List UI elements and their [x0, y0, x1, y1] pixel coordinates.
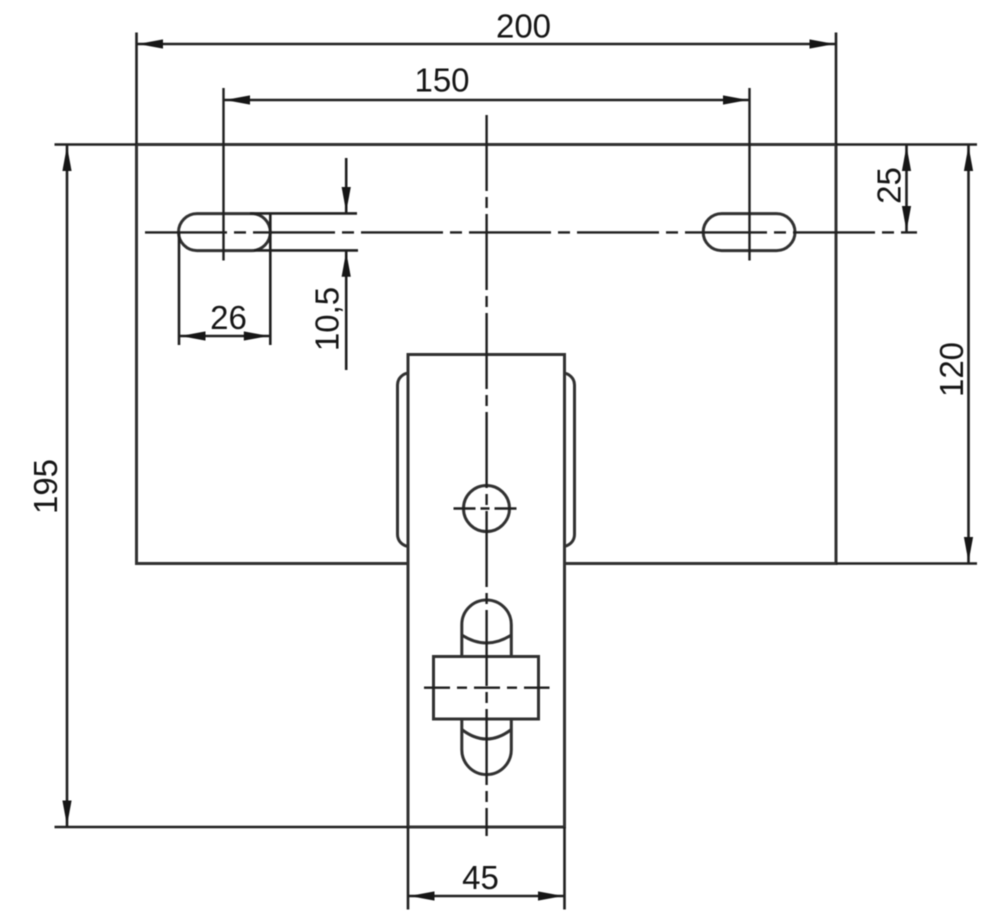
vertical centerline of part	[485, 115, 487, 836]
tube edge arc upper	[462, 635, 512, 643]
svg-text:45: 45	[462, 859, 499, 896]
dim 10,5 leader upper	[345, 158, 348, 213]
right side tab (folded flange behind bracket)	[541, 373, 575, 547]
dim 26 extension right	[269, 214, 272, 346]
dim 10,5 extension lower	[254, 249, 358, 252]
dim 45 extension right	[563, 827, 566, 910]
dim 150 line	[224, 99, 750, 102]
base plate outline	[137, 145, 837, 564]
dim 45 extension left	[407, 827, 410, 910]
dim 195 extension bottom	[55, 826, 409, 829]
vertical bracket body	[408, 355, 565, 828]
center circular hole	[464, 486, 510, 532]
dim 26 line	[179, 335, 270, 338]
dim 195 line	[66, 145, 69, 828]
dim 120 extension top	[836, 143, 977, 146]
dim 26 extension left	[178, 232, 181, 345]
dim 200 line	[137, 43, 837, 46]
dim 10,5 leader lower	[345, 250, 348, 370]
left side tab (folded flange behind bracket)	[398, 373, 432, 547]
dim 25 line	[905, 145, 908, 233]
dim 120 line	[967, 145, 970, 564]
left slot vertical crosshair / 150 extension	[222, 88, 224, 261]
svg-text:25: 25	[871, 167, 908, 204]
horizontal centerline through slotted holes	[145, 231, 917, 233]
dim 45 line	[408, 895, 565, 898]
right slotted hole	[703, 214, 795, 251]
svg-text:150: 150	[414, 62, 469, 99]
svg-text:26: 26	[210, 299, 247, 336]
nut block centerline horizontal	[424, 687, 550, 689]
dim 120 extension bottom	[836, 562, 977, 565]
right slot vertical crosshair / 150 extension	[748, 88, 750, 261]
svg-text:200: 200	[496, 8, 551, 45]
svg-text:120: 120	[933, 342, 970, 397]
tube edge arc lower	[462, 730, 512, 740]
dim 200 extension right	[835, 33, 838, 145]
dim 10,5 extension upper	[250, 212, 357, 215]
dim 200 extension left	[135, 33, 138, 145]
left slotted hole	[179, 214, 271, 251]
vertical slot in bracket	[462, 600, 512, 775]
square nut block over slot	[434, 657, 539, 720]
dim 195 extension top	[55, 143, 137, 146]
svg-text:195: 195	[27, 459, 64, 514]
circle crosshair horizontal	[454, 507, 520, 509]
svg-text:10,5: 10,5	[309, 287, 346, 351]
